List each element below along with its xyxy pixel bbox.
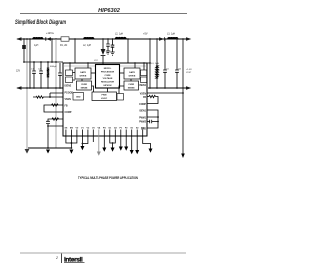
inductor L1 on bus (bumps) — [33, 38, 43, 39]
terminal arrow +12V left — [16, 37, 21, 40]
capacitor C5 output — [176, 39, 178, 88]
wire drop x52 — [51, 39, 53, 62]
footer divider bar — [61, 254, 63, 264]
wire driver to Q1 Q2 — [70, 63, 75, 80]
pin drop wire 5 — [82, 136, 88, 144]
svg-text:FB: FB — [143, 97, 146, 99]
svg-text:L3, 1μH: L3, 1μH — [167, 33, 175, 35]
svg-text:CURR: CURR — [81, 84, 87, 86]
capacitor C3 drop with ground — [112, 39, 114, 52]
wire U3 down — [130, 79, 132, 81]
mosfet Q1 — [66, 70, 73, 76]
svg-text:PROCESSOR: PROCESSOR — [101, 71, 115, 73]
node dots top bus left — [23, 38, 57, 40]
svg-text:Simplified Block Diagram: Simplified Block Diagram — [15, 19, 66, 26]
wire +12V top bus — [17, 38, 190, 40]
right pin loop 2 — [147, 110, 158, 117]
pin drop wire 1 — [66, 136, 72, 143]
pin drop wire 4 arrow — [81, 136, 83, 146]
terminal arrow top right — [186, 37, 191, 40]
pin drop wire 8 arrow — [103, 136, 105, 148]
pin drop wire 15 — [143, 136, 151, 149]
svg-text:+5V: +5V — [143, 32, 148, 35]
svg-text:MICRO-: MICRO- — [104, 68, 112, 70]
svg-text:V4: V4 — [97, 126, 100, 129]
inductor L3 on bus — [168, 38, 178, 39]
wire into gate driver left — [87, 63, 89, 68]
capacitor C6 — [33, 62, 35, 88]
pin drop pair 9-10 arrow — [110, 136, 116, 148]
svg-text:G1: G1 — [108, 127, 112, 129]
svg-text:GATE: GATE — [80, 71, 86, 74]
bottom pin labels — [64, 126, 144, 129]
ground symbol bottom-left — [25, 149, 30, 154]
inductor L2 on bus — [116, 38, 126, 39]
svg-text:DRIVE: DRIVE — [80, 76, 87, 78]
svg-text:V1: V1 — [81, 127, 84, 129]
wire joining loops — [157, 117, 159, 122]
capacitor C2 drop with ground — [107, 39, 109, 51]
resistor R3 on FB wire — [33, 96, 63, 98]
current sense block right — [124, 81, 139, 90]
pin drop wire 12 arrow — [125, 136, 127, 147]
node dots VOUT bus — [149, 87, 184, 89]
diode D1 on bus — [46, 37, 51, 41]
wire VCC drop x75 — [74, 39, 76, 63]
svg-text:LOGIC: LOGIC — [101, 98, 108, 100]
svg-text:VCC: VCC — [94, 60, 99, 62]
wire left VCC branch y62 — [24, 61, 63, 63]
capacitor C1 bulk (filled) — [22, 45, 26, 49]
svg-text:L2, 1μH: L2, 1μH — [83, 45, 91, 47]
svg-text:SENSE: SENSE — [81, 87, 88, 89]
main converter box — [63, 63, 147, 136]
wire VSEN y93 — [147, 92, 183, 94]
mosfet Q2 — [66, 77, 73, 83]
pin drop wire 6 stub — [92, 136, 94, 142]
svg-text:HIP6302: HIP6302 — [98, 8, 121, 14]
svg-text:ISEN1: ISEN1 — [139, 111, 146, 113]
mosfet Q3 — [141, 70, 147, 76]
capacitor C8 — [59, 63, 61, 88]
svg-text:P1: P1 — [119, 127, 122, 129]
svg-text:G2: G2 — [114, 127, 118, 129]
controller U2 center block — [96, 65, 120, 89]
pin drop wire 7 gray arrow — [98, 136, 100, 152]
svg-text:P2: P2 — [125, 127, 128, 129]
terminal arrow VOUT — [186, 86, 191, 89]
pin drop wire 3 — [71, 136, 77, 143]
wire long drop x183 with arrow — [182, 39, 184, 154]
small block left — [73, 93, 84, 101]
bottom pin ticks — [66, 130, 143, 137]
svg-text:REGULATOR: REGULATOR — [101, 81, 114, 84]
capacitor C4 output — [164, 39, 166, 88]
left edge pin labels — [65, 85, 74, 114]
diode D3 on bus — [159, 37, 164, 41]
wire comp tail to ground — [47, 126, 49, 148]
svg-text:R1, 2Ω: R1, 2Ω — [60, 45, 67, 47]
svg-text:PGOOD: PGOOD — [65, 92, 74, 94]
wire gray ground rail x27 — [26, 39, 28, 149]
node dots +5V bus y88 — [26, 87, 61, 89]
internal VCC bus gray — [63, 65, 147, 67]
right pin loop C10 — [147, 122, 158, 129]
pin drop wire 11 arrow — [120, 136, 122, 147]
svg-text:+12VIN: +12VIN — [46, 32, 54, 35]
pwm logic block center — [92, 92, 117, 101]
right pin loop R6 — [147, 96, 149, 98]
wire vcc stub top right — [147, 62, 150, 64]
wire driver to Q3 Q4 — [140, 63, 144, 80]
svg-text:COMP: COMP — [65, 112, 72, 114]
svg-text:VOUT: VOUT — [186, 72, 192, 74]
svg-text:LO, 1μH: LO, 1μH — [151, 63, 159, 65]
inductor L4 on bus (bumps) — [84, 38, 94, 39]
svg-text:CORE: CORE — [104, 75, 111, 77]
svg-text:ISEN1: ISEN1 — [139, 85, 146, 87]
loop R5 C9 comp2 — [48, 119, 63, 126]
svg-text:SENSE: SENSE — [128, 87, 135, 89]
svg-text:S1: S1 — [130, 127, 133, 129]
footer rule — [20, 252, 186, 254]
resistor R1 on bus — [61, 37, 69, 41]
svg-text:VOLTAGE: VOLTAGE — [103, 77, 113, 80]
svg-text:V3: V3 — [92, 127, 95, 129]
wire drop x56 — [55, 39, 57, 148]
node dots 12V branch y62 — [23, 61, 57, 63]
svg-text:DRIVE: DRIVE — [129, 76, 136, 78]
svg-text:+1.6V: +1.6V — [186, 69, 192, 71]
wire U2 to U3 — [120, 72, 125, 74]
svg-text:HIP6302: HIP6302 — [103, 85, 112, 87]
gate driver U3 right block — [124, 68, 140, 79]
left pin VSEN wire — [50, 93, 63, 97]
svg-text:CB: CB — [178, 68, 182, 70]
capacitor C7 — [40, 62, 42, 88]
svg-text:PWM2: PWM2 — [139, 121, 147, 123]
small block right — [117, 94, 124, 101]
wire right sense to pwm — [119, 86, 124, 94]
svg-text:CO: CO — [166, 68, 170, 70]
diode D2 vertical to box — [102, 39, 104, 66]
wire U2 down — [107, 88, 109, 92]
svg-text:TYPICAL MULTI-PHASE POWER APPL: TYPICAL MULTI-PHASE POWER APPLICATION — [78, 176, 138, 180]
svg-text:GND: GND — [76, 96, 81, 98]
wire VOUT bus — [148, 87, 187, 89]
svg-text:COMP: COMP — [139, 104, 146, 106]
terminal arrow +5V left — [16, 86, 21, 89]
inductor LOUT vertical — [156, 39, 158, 88]
svg-text:FB: FB — [65, 106, 68, 108]
wire vertical rail x30 — [29, 39, 31, 88]
resistor R2 vertical — [47, 62, 49, 68]
loop R4 comp — [44, 105, 63, 112]
svg-text:V0: V0 — [76, 127, 79, 129]
mosfet Q4 — [141, 77, 147, 83]
pin drop wire 2 with ground arrow — [70, 136, 72, 148]
gate driver U1 left block — [75, 68, 91, 79]
svg-text:SS: SS — [64, 127, 67, 129]
svg-text:12V: 12V — [16, 71, 21, 73]
pin drop wire 13 arrow — [131, 136, 133, 150]
current sense block left — [77, 81, 92, 90]
svg-text:S2: S2 — [136, 127, 139, 129]
svg-text:VSEN: VSEN — [65, 99, 72, 101]
svg-text:PWM: PWM — [102, 95, 107, 97]
wire +5V lower bus y88 — [17, 87, 63, 89]
svg-text:L2, 1μH: L2, 1μH — [115, 33, 123, 35]
wire VCC drop x128 — [127, 39, 129, 63]
wire left sense to pwm — [92, 86, 94, 92]
svg-text:PWM1: PWM1 — [139, 117, 147, 119]
svg-text:EN: EN — [70, 127, 73, 129]
svg-text:VSEN: VSEN — [140, 93, 147, 95]
svg-text:CURR: CURR — [128, 84, 134, 86]
wire drop x150 — [149, 39, 151, 88]
svg-text:2: 2 — [55, 256, 58, 260]
svg-text:ISEN2: ISEN2 — [65, 85, 72, 87]
bottom ground bus — [28, 147, 71, 149]
pin drop wire 14 arrow — [136, 136, 138, 150]
wire U1 to U2 — [91, 72, 96, 74]
wire vertical rail x24 — [23, 39, 25, 62]
wire into gate driver right — [134, 63, 136, 68]
header rule — [20, 13, 187, 15]
right edge pin labels — [139, 85, 147, 130]
wire U1 down — [81, 79, 83, 81]
svg-text:1μH: 1μH — [34, 45, 39, 47]
svg-text:1000pF: 1000pF — [50, 66, 58, 68]
svg-text:GATE: GATE — [129, 71, 135, 74]
svg-text:GD: GD — [141, 127, 145, 129]
svg-text:V2: V2 — [87, 127, 90, 129]
svg-text:FS: FS — [103, 127, 106, 129]
